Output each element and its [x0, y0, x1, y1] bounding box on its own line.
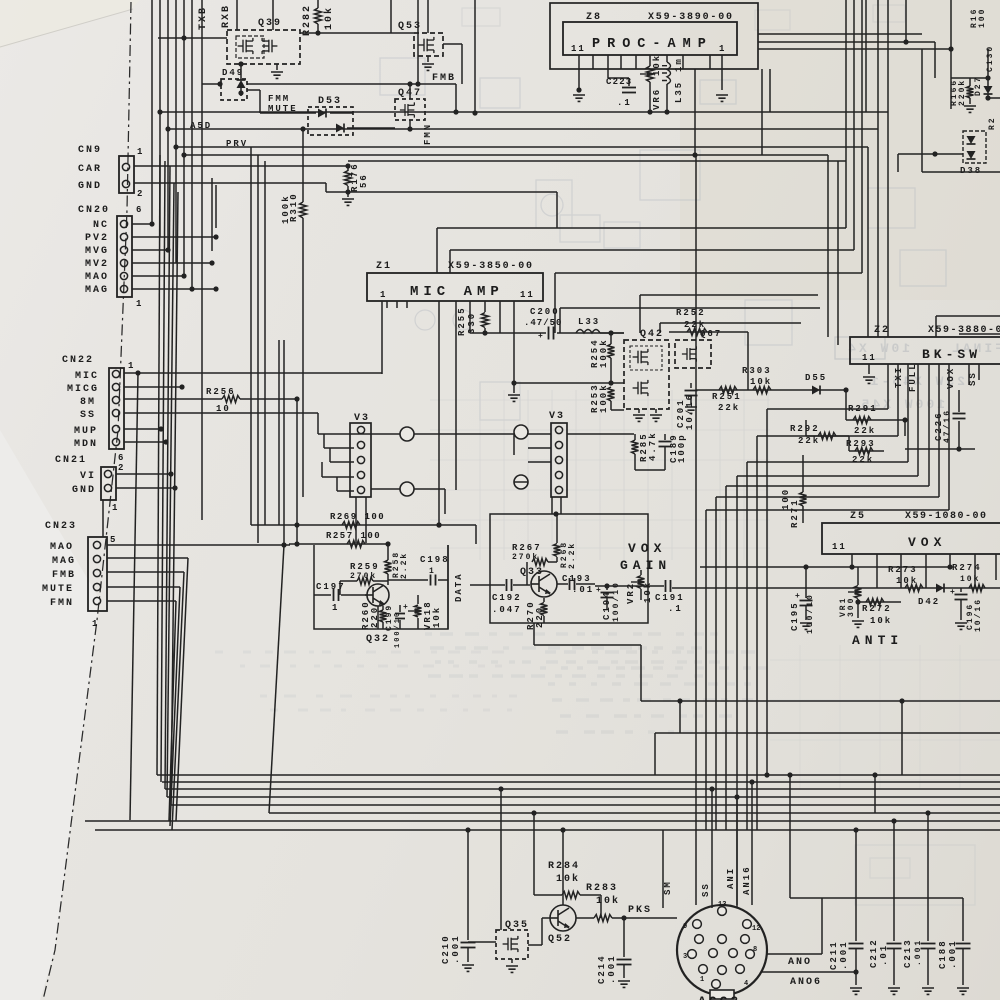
- svg-text:4.7k: 4.7k: [648, 431, 658, 461]
- ground below C201: [685, 407, 697, 413]
- svg-text:ANI: ANI: [726, 867, 736, 889]
- wire staircase V x=846 to y=228: [845, 0, 847, 228]
- svg-text:9: 9: [683, 923, 687, 931]
- wire C191 to VOX line: [672, 587, 1000, 589]
- wire bus y=155 with staircase corner: [182, 154, 828, 156]
- resistor R166 220k: [951, 77, 990, 79]
- wire vox feed line y=567: [700, 566, 951, 568]
- wire top-right corner nest 1: [758, 33, 922, 35]
- wire top entry x=391: [390, 0, 392, 33]
- svg-text:47/16: 47/16: [943, 409, 952, 443]
- wire CAR to R176: [134, 165, 348, 167]
- svg-text:L33: L33: [578, 317, 600, 327]
- potentiometer VR6: [649, 55, 651, 66]
- VOX pin stubs down: [851, 554, 853, 567]
- wire L33 to Q42: [600, 332, 624, 334]
- resistor R258 vertical: [387, 544, 389, 560]
- op-amp block PROC-AMP box: [563, 22, 737, 55]
- wire PROC-AMP pin to ground left: [578, 69, 580, 90]
- svg-text:+: +: [596, 586, 601, 595]
- svg-text:R272: R272: [862, 604, 892, 614]
- resistor R273: [905, 585, 923, 592]
- svg-text:R282: R282: [302, 4, 313, 36]
- svg-text:.001: .001: [839, 940, 849, 970]
- ic Z8 outer box: [550, 3, 758, 69]
- svg-text:10k: 10k: [643, 581, 653, 603]
- wire drop to Q52: [562, 830, 564, 905]
- ghost outline around FINAL: [835, 337, 885, 359]
- diode D49 symbol vertical: [237, 80, 246, 88]
- wire drop to Q35: [500, 789, 502, 930]
- ground below Q35: [511, 959, 513, 963]
- wire top-left vertical bundle from CN20 up to top edge: [151, 0, 153, 223]
- wire bus line 2: [162, 781, 1000, 783]
- svg-text:Z2: Z2: [874, 325, 890, 336]
- wire L35 leads: [666, 55, 668, 62]
- svg-text:1: 1: [136, 299, 143, 309]
- ground below Q39: [276, 64, 278, 70]
- svg-text:100p: 100p: [677, 433, 687, 463]
- svg-text:C192: C192: [492, 593, 522, 603]
- svg-text:100/10: 100/10: [612, 581, 621, 622]
- svg-text:.001: .001: [607, 954, 617, 984]
- wire fan line 1 to bus: [157, 155, 160, 775]
- svg-text:MAG: MAG: [85, 285, 109, 296]
- wire D55 line y=390: [696, 389, 846, 391]
- svg-text:+: +: [403, 603, 408, 612]
- wire CN22 MICG: [124, 386, 182, 388]
- capacitor C189: [664, 434, 666, 440]
- transistor Q67 fet: [682, 346, 696, 361]
- svg-text:GND: GND: [72, 485, 96, 496]
- wire drop to R284: [533, 813, 535, 895]
- wire top entries x=202,x=418,x=475: [201, 0, 203, 84]
- diode D42: [936, 584, 944, 593]
- capacitor C194: [606, 585, 608, 590]
- svg-text:10k: 10k: [556, 873, 580, 885]
- svg-text:.01: .01: [879, 944, 889, 966]
- transistor Q67 dashed box: [675, 340, 711, 368]
- resistor R252: [687, 329, 707, 336]
- resistor R254 vertical: [610, 333, 612, 344]
- svg-text:1: 1: [112, 503, 119, 513]
- ground below VR1: [852, 621, 864, 627]
- wire ANO from ACC2: [767, 953, 822, 955]
- wire relay pin stub 3: [329, 448, 331, 462]
- svg-text:10k: 10k: [652, 54, 662, 76]
- svg-text:100/10: 100/10: [806, 593, 815, 634]
- wire C223 feed: [607, 69, 609, 78]
- inner dashed box Q42: [630, 346, 662, 370]
- svg-text:10k: 10k: [750, 377, 772, 387]
- wire CN9 GND: [134, 182, 326, 184]
- svg-text:8M: 8M: [80, 397, 96, 408]
- svg-text:1: 1: [137, 147, 144, 157]
- capacitor C213: [927, 813, 929, 941]
- resistor R251: [719, 387, 737, 394]
- svg-text:10W X4: 10W X4: [845, 341, 910, 356]
- wire vertical pair to CN22: [211, 178, 213, 251]
- inductor L35 coil: [662, 62, 671, 84]
- inductor L33 coil: [576, 330, 600, 334]
- svg-text:VOX: VOX: [908, 535, 946, 550]
- svg-text:10k: 10k: [960, 575, 980, 584]
- wire BK-SW nest line 3: [907, 364, 909, 462]
- svg-text:8: 8: [753, 946, 757, 954]
- svg-text:220k: 220k: [958, 79, 967, 106]
- wire R292 row: [806, 435, 849, 437]
- svg-text:+: +: [950, 588, 955, 597]
- svg-text:R273: R273: [888, 565, 918, 575]
- diode D38 lower: [967, 151, 976, 159]
- wire R269 line y=525: [251, 524, 476, 526]
- resistor R176 with ground: [345, 163, 350, 168]
- resistor R310 vertical: [302, 129, 304, 202]
- svg-text:VOX: VOX: [946, 367, 956, 389]
- resistor R293: [855, 448, 873, 455]
- PROC-AMP pin stubs: [578, 55, 580, 69]
- wire PROC-AMP pin x=695 down to node: [694, 69, 696, 155]
- wire BK-SW pin 11 ground: [868, 364, 870, 374]
- wire corner x=641 up to y=645: [640, 645, 642, 701]
- connector CN9 pin CAR: [122, 163, 129, 170]
- wire MIC AMP pins down: [438, 301, 440, 525]
- wire D49 vertical from Q39: [240, 64, 242, 72]
- svg-text:1: 1: [700, 976, 704, 984]
- svg-text:.1: .1: [617, 98, 632, 108]
- svg-text:D27: D27: [974, 76, 983, 96]
- wire CN21 to CN23 vertical: [102, 500, 104, 537]
- paper shading top-right: [680, 0, 1000, 300]
- wire FMN CN23 run: [107, 600, 176, 602]
- svg-text:330: 330: [467, 312, 477, 334]
- svg-text:Q39: Q39: [258, 18, 282, 29]
- svg-text:VOX: VOX: [628, 541, 666, 556]
- resistor R268 vertical: [556, 514, 558, 543]
- wire MIC AMP pin 11 down to node: [513, 301, 515, 383]
- svg-text:CAR: CAR: [78, 164, 102, 175]
- svg-text:C200: C200: [530, 307, 560, 317]
- ground below C195: [800, 623, 812, 629]
- capacitor C210: [467, 830, 469, 940]
- svg-text:C188: C188: [938, 939, 948, 969]
- svg-text:5: 5: [110, 535, 117, 545]
- resistor R291: [853, 417, 871, 424]
- wire CN22 SS to relay: [124, 412, 318, 414]
- wire bus line 4: [167, 796, 1000, 798]
- svg-text:MUP: MUP: [74, 426, 98, 437]
- connector CN23 pins: [93, 541, 100, 548]
- wire x=902 from dot down: [901, 701, 903, 775]
- svg-text:220: 220: [535, 606, 545, 628]
- svg-text:+: +: [795, 592, 800, 601]
- svg-text:11: 11: [571, 44, 586, 54]
- svg-text:AN16: AN16: [742, 865, 752, 895]
- svg-text:C212: C212: [869, 938, 879, 968]
- ghost text row left-bottom: [215, 651, 223, 654]
- ghost mirrored text 100W X45: [859, 397, 945, 412]
- svg-text:13: 13: [718, 901, 726, 909]
- node dot top Q33 box: [553, 511, 558, 516]
- connector ACC2 pins: [718, 907, 727, 916]
- wire ANO riser: [789, 775, 791, 898]
- wire R293 row: [848, 436, 850, 451]
- resistor R267 horizontal: [532, 559, 548, 566]
- wire R291 row: [845, 390, 847, 420]
- transistor Q32: [367, 584, 389, 606]
- page border dash-dot line left: [43, 2, 131, 1000]
- wire relay line to bundle: [635, 469, 665, 471]
- capacitor C191: [595, 585, 664, 587]
- svg-text:Z1: Z1: [376, 261, 392, 272]
- svg-text:ANO: ANO: [788, 957, 812, 968]
- svg-text:Q35: Q35: [505, 920, 529, 931]
- wire V x=476 down from R269: [475, 525, 477, 544]
- wire MIC branch down: [130, 373, 138, 820]
- resistor R284: [534, 894, 562, 896]
- connector CN20 box: [117, 216, 132, 297]
- svg-text:C213: C213: [903, 938, 913, 968]
- relay V3 left contacts: [357, 426, 364, 433]
- resistor R269: [342, 522, 360, 529]
- svg-text:R269 100: R269 100: [330, 512, 385, 522]
- wire staircase V x=854 to y=250: [853, 0, 855, 250]
- wire bus line 5: [171, 804, 1000, 806]
- svg-text:RXB: RXB: [221, 4, 232, 28]
- wire CN21 VI stub: [116, 473, 171, 475]
- wire V x=297 connects 8M R269 R257: [296, 399, 298, 544]
- resistor R283: [576, 917, 594, 919]
- wire R267 run: [526, 562, 528, 585]
- wire Q35 to Q52: [528, 944, 542, 946]
- wire below relays: [355, 497, 357, 543]
- block BK-SW box: [850, 337, 1000, 364]
- wire fan line 4 to bus: [167, 183, 174, 797]
- wire drop ANI: [736, 797, 738, 905]
- svg-text:10k: 10k: [323, 6, 335, 30]
- svg-text:R252: R252: [676, 308, 706, 318]
- svg-text:.001: .001: [948, 939, 958, 969]
- connector CN22 box: [109, 368, 124, 449]
- wire right edge y=172: [922, 171, 1000, 173]
- wire Q39 left stub: [158, 37, 227, 39]
- ghost marks top edge: [755, 10, 790, 30]
- svg-text:CN22: CN22: [62, 355, 94, 366]
- svg-text:GAIN: GAIN: [620, 558, 671, 573]
- resistor R257: [347, 541, 365, 548]
- ghost box bottom-right: [855, 845, 975, 905]
- connector CN23 box: [88, 537, 107, 611]
- connector CN9 pin GND: [122, 180, 129, 187]
- svg-text:CN20: CN20: [78, 205, 110, 216]
- wire bus y=161 staircase corner: [837, 161, 839, 345]
- svg-text:3: 3: [683, 953, 687, 961]
- svg-text:R274: R274: [952, 563, 982, 573]
- resistor R270 vertical: [543, 598, 545, 602]
- wire bus line 7: [85, 820, 1000, 822]
- wire audio line y=383: [514, 382, 624, 384]
- capacitor C199: [399, 605, 401, 612]
- wire relay stubs lower: [371, 488, 400, 490]
- transistor Q42 fet upper: [633, 349, 648, 365]
- diode D53 dashed box: [308, 107, 353, 135]
- capacitor C211: [855, 830, 857, 941]
- svg-text:22k: 22k: [718, 403, 740, 413]
- svg-text:CN21: CN21: [55, 455, 87, 466]
- svg-text:SS: SS: [701, 882, 711, 897]
- wire long vertical x=696: [695, 155, 697, 905]
- svg-text:V3: V3: [549, 411, 565, 422]
- svg-text:R2: R2: [988, 116, 997, 130]
- wire PROC-AMP pin1 ground: [721, 69, 723, 90]
- svg-text:D38: D38: [960, 166, 982, 176]
- capacitor C196: [960, 588, 962, 592]
- wire FMB y=84 run: [202, 83, 221, 85]
- svg-text:Q32: Q32: [366, 634, 390, 645]
- svg-text:10k: 10k: [596, 895, 620, 907]
- svg-text:1m: 1m: [674, 57, 684, 72]
- svg-text:R251: R251: [712, 392, 742, 402]
- svg-text:11: 11: [832, 542, 847, 552]
- op-amp block MIC AMP box: [367, 273, 543, 301]
- wire MUTE CN23 run: [107, 586, 180, 588]
- wire bus A5D y=129: [166, 128, 878, 130]
- svg-text:6: 6: [136, 205, 143, 215]
- svg-text:TXI: TXI: [894, 366, 904, 388]
- transistor Q42 dashed box: [624, 340, 669, 409]
- transistor Q53 fet: [419, 37, 434, 53]
- wire BK-SW nest line 5: [928, 364, 930, 486]
- svg-text:CN9: CN9: [78, 145, 102, 156]
- wire MIC AMP pin1 down: [381, 301, 383, 374]
- svg-text:Q42: Q42: [640, 329, 664, 340]
- svg-text:R303: R303: [742, 366, 772, 376]
- relay V3 left armature circle upper: [400, 427, 414, 441]
- wire Q32 emitter down: [377, 606, 379, 629]
- wire fan line 3 to bus: [165, 166, 170, 789]
- wire drop SS: [711, 789, 713, 908]
- connector ACC2 outer circle: [677, 905, 767, 995]
- transistor Q42 fet lower: [633, 380, 648, 396]
- relay V3 right contacts: [555, 426, 562, 433]
- svg-text:+: +: [538, 332, 543, 341]
- svg-text:MDN: MDN: [74, 439, 98, 450]
- svg-text:R256: R256: [206, 387, 236, 397]
- wire corner x=655 to bus: [654, 733, 656, 775]
- block VOX box: [822, 523, 1000, 554]
- ground below BK-SW pin 11: [863, 377, 875, 383]
- capacitor C192: [470, 584, 505, 586]
- node dot on y=155 at x=695: [692, 152, 697, 157]
- wire bus line 6: [269, 812, 1000, 814]
- ghost component text rows center-bottom: [545, 650, 556, 654]
- wire mid verticals from PRV nest down to relay row: [250, 147, 252, 525]
- ghost vertical grid center: [479, 390, 481, 560]
- resistor R282 vertical: [317, 0, 319, 8]
- capacitor C200: [548, 327, 550, 340]
- svg-text:1: 1: [429, 567, 436, 576]
- diode D53 second diode: [336, 124, 344, 133]
- wire bus line 1: [157, 774, 1000, 776]
- svg-text:4: 4: [744, 980, 748, 988]
- svg-text:GND: GND: [78, 181, 102, 192]
- svg-text:100: 100: [978, 8, 987, 28]
- node dot PKS: [621, 915, 626, 920]
- diode D55: [812, 386, 820, 395]
- svg-text:10k: 10k: [870, 616, 892, 626]
- potentiometer VR2: [640, 570, 642, 575]
- wire below C226: [958, 421, 960, 449]
- svg-text:SM: SM: [663, 880, 673, 895]
- wire mid horizontal y=701: [641, 700, 1000, 702]
- wire bus PRV y=147: [174, 146, 868, 148]
- connector CN21 box: [101, 467, 116, 500]
- svg-text:300: 300: [847, 597, 856, 617]
- wire top-right corner nest 2: [758, 41, 935, 43]
- capacitor C214: [623, 918, 625, 957]
- svg-text:SS: SS: [80, 410, 96, 421]
- wire MIC AMP pin down d: [499, 301, 501, 333]
- ground below C213: [922, 988, 934, 994]
- svg-text:D42: D42: [918, 597, 940, 607]
- svg-text:10/16: 10/16: [974, 598, 983, 632]
- svg-text:BK-SW: BK-SW: [922, 347, 981, 362]
- connector CN21 pins: [104, 470, 111, 477]
- wire BK-SW nest line 6: [938, 364, 940, 497]
- svg-text:C211: C211: [829, 940, 839, 970]
- transistor Q52: [550, 905, 576, 931]
- ground below PROC-AMP right: [716, 95, 728, 101]
- capacitor C226: [958, 390, 960, 412]
- svg-text:56: 56: [359, 173, 369, 188]
- wire MAG CN23 run: [107, 557, 188, 559]
- svg-text:PROC-AMP: PROC-AMP: [592, 37, 713, 52]
- svg-text:.01: .01: [572, 585, 594, 595]
- wire BK-SW right stubs: [968, 364, 970, 385]
- svg-text:12: 12: [752, 925, 760, 933]
- relay V3 left armature circle lower: [400, 482, 414, 496]
- svg-text:R255: R255: [457, 306, 467, 336]
- wire CN21 GND stub: [116, 487, 175, 489]
- ground below C188: [957, 988, 969, 994]
- svg-text:X59-3850-00: X59-3850-00: [448, 261, 534, 272]
- svg-text:100/10: 100/10: [394, 611, 402, 648]
- svg-text:R284: R284: [548, 861, 580, 872]
- wire Z8 right corner drops: [761, 69, 763, 155]
- svg-text:C191: C191: [655, 593, 685, 603]
- resistor R274: [969, 585, 985, 592]
- svg-text:100k: 100k: [599, 338, 609, 368]
- svg-text:TXB: TXB: [198, 6, 209, 30]
- capacitor C223: [622, 87, 636, 89]
- wire right edge lower corners: [936, 315, 1000, 317]
- wire BK-SW nest line 7: [948, 364, 950, 510]
- resistor R271 vertical: [802, 455, 804, 492]
- svg-text:MAG: MAG: [52, 556, 76, 567]
- ghost horizontal grid center: [430, 399, 770, 401]
- svg-text:R259: R259: [350, 562, 380, 572]
- ghost mirrored text FINAL 10W: [845, 341, 1000, 356]
- svg-text:6: 6: [118, 453, 125, 463]
- svg-text:FMM: FMM: [268, 94, 290, 104]
- svg-text:.1: .1: [668, 604, 683, 614]
- wire relay stubs right: [528, 447, 551, 449]
- svg-text:10k: 10k: [896, 576, 918, 586]
- connector CN20 pins: [120, 220, 127, 227]
- svg-text:FMN: FMN: [423, 123, 433, 145]
- diode D38 dashed box: [963, 131, 986, 163]
- svg-text:MICG: MICG: [67, 384, 99, 395]
